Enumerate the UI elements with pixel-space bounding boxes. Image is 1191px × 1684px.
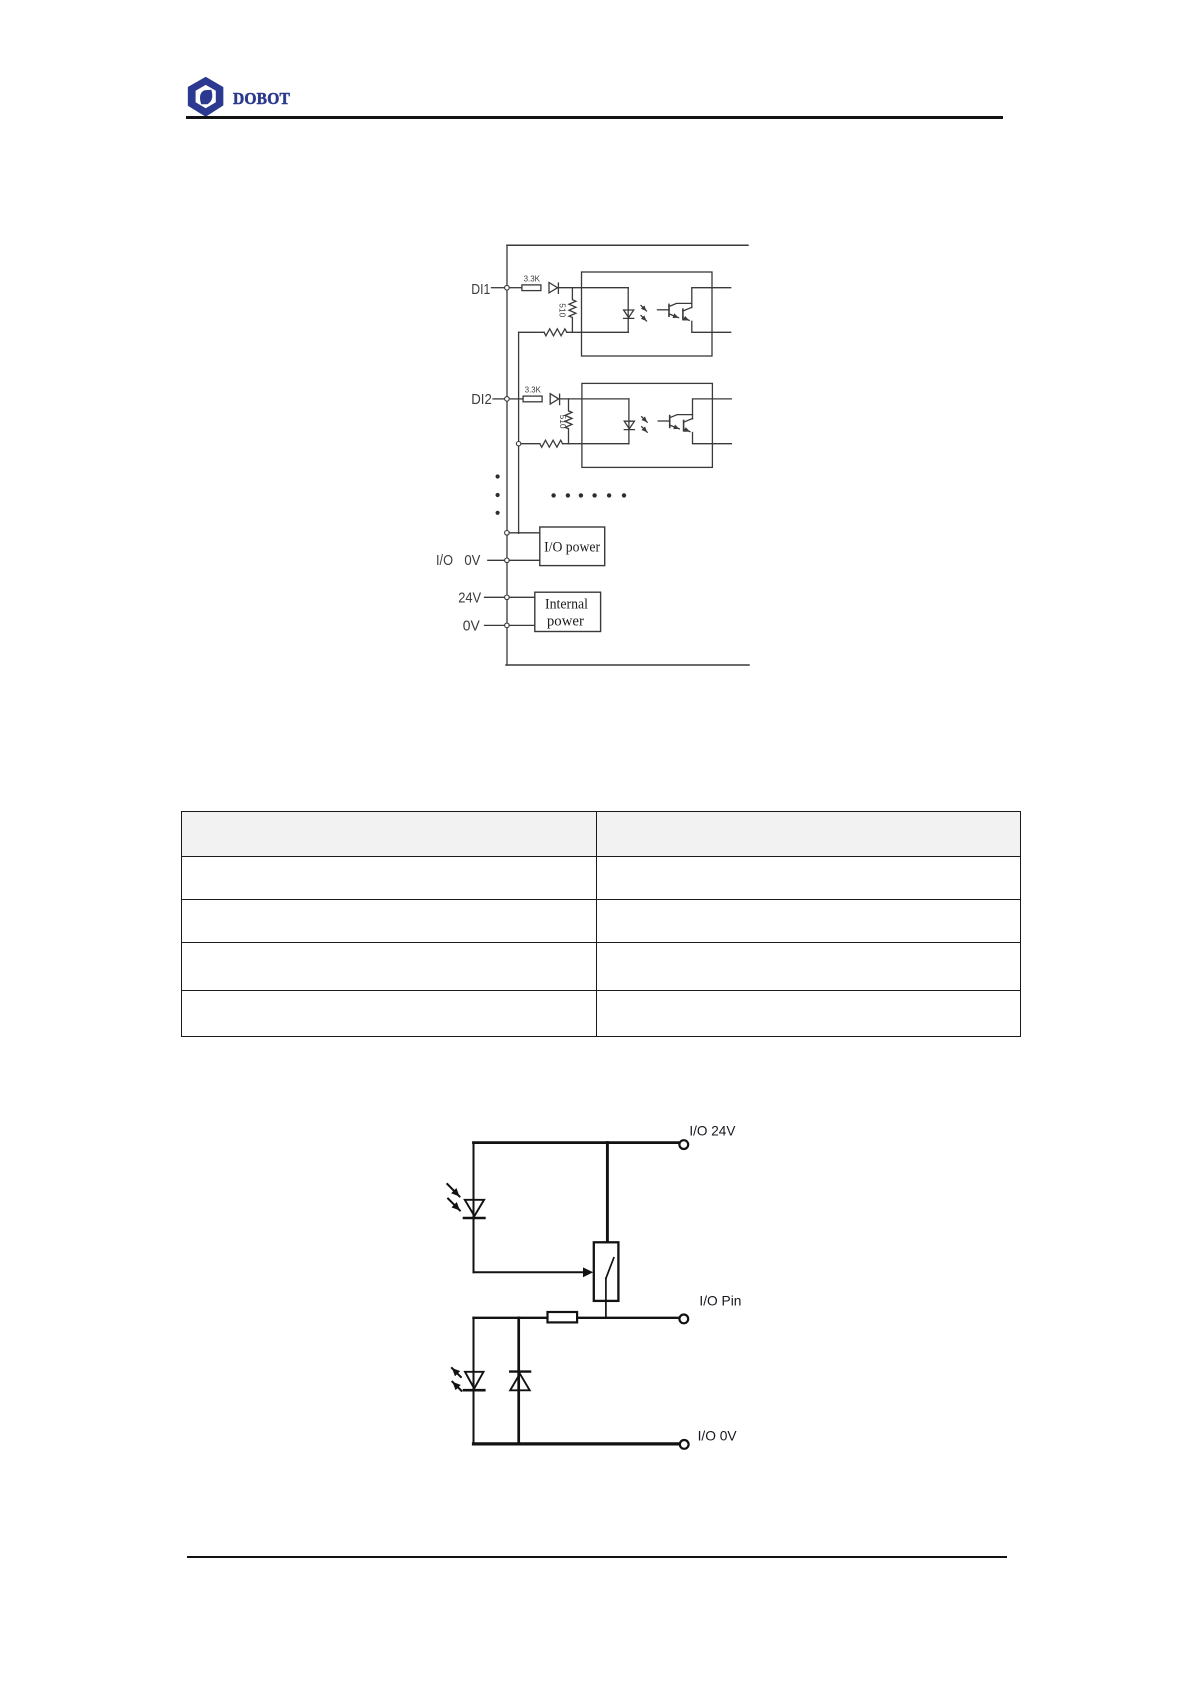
terminal I/O Pin: [679, 1315, 688, 1324]
indicator LED2: [465, 1372, 484, 1389]
svg-text:3.3K: 3.3K: [524, 274, 541, 283]
wire I/O Pin rail: [474, 1317, 679, 1319]
wire LED1 branch: [473, 1143, 475, 1273]
resistor R6: [540, 440, 563, 447]
wire DI2 lead: [493, 398, 505, 400]
wire D2 to LED: [560, 398, 629, 400]
wire pulldown bus: [518, 332, 520, 533]
wire DI1 lead: [492, 287, 505, 289]
optocoupler U1: [582, 272, 713, 356]
LED of U2: [624, 399, 634, 444]
clamp diode D3: [510, 1370, 530, 1372]
wire U2 output frame: [693, 399, 732, 444]
wire I/O 0V lead: [488, 559, 505, 561]
node DI2 terminal: [505, 397, 510, 402]
svg-text:power: power: [547, 614, 584, 630]
svg-text:I/O Pin: I/O Pin: [699, 1292, 741, 1308]
arrowhead into switch: [583, 1267, 593, 1277]
resistor R1 3.3K: [522, 285, 541, 291]
node I/O power junction: [505, 531, 510, 536]
logo leaf: [200, 90, 212, 105]
wire 0V to box: [509, 624, 535, 626]
node 24V terminal: [505, 595, 510, 600]
svg-text:510: 510: [558, 303, 567, 318]
terminal I/O 0V: [680, 1440, 689, 1449]
switch box Q: [594, 1242, 619, 1301]
wire R3 to bus corner: [519, 331, 545, 333]
svg-text:DI1: DI1: [471, 281, 490, 298]
wire I/O 24V rail: [474, 1141, 679, 1144]
svg-text:I/O 0V: I/O 0V: [698, 1428, 738, 1444]
svg-text:DOBOT: DOBOT: [233, 89, 290, 108]
resistor R5 510: [565, 399, 572, 444]
svg-text:24V: 24V: [458, 589, 481, 606]
svg-text:0V: 0V: [464, 552, 480, 569]
optocoupler U2: [582, 383, 713, 467]
Internal power box: [535, 592, 601, 631]
footer rule: [187, 1556, 1007, 1558]
terminal I/O 24V: [679, 1140, 688, 1149]
svg-text:510: 510: [558, 415, 567, 430]
I/O power box: [540, 527, 605, 566]
logo hexagon: [189, 78, 223, 116]
resistor R7: [548, 1312, 578, 1322]
wire I/O 0V rail: [474, 1442, 679, 1445]
node DI2 return junction: [516, 442, 520, 446]
header rule: [186, 116, 1003, 118]
phototransistor Q2: [658, 420, 670, 422]
wire LED2 cathode bottom: [563, 443, 629, 445]
horizontal ellipsis dots: [551, 493, 555, 497]
resistor R3: [544, 329, 567, 336]
light arrows U1: [641, 306, 647, 312]
phototransistor Q1: [658, 309, 670, 311]
resistor R2 510: [569, 288, 576, 333]
resistor R4 3.3K: [523, 396, 542, 402]
wire bottom border: [506, 664, 749, 666]
svg-text:I/O: I/O: [436, 552, 453, 569]
switch lever: [606, 1258, 614, 1279]
light arrows out of LED2: [452, 1368, 461, 1377]
wire R6 to bus: [519, 443, 540, 445]
wire DI2 to resistor: [509, 398, 523, 400]
svg-text:I/O 24V: I/O 24V: [689, 1123, 736, 1139]
vertical ellipsis dots: [496, 474, 500, 478]
wire 0V lead: [485, 624, 505, 626]
Upper schematic: digital input optocoupler circuit: [420, 230, 800, 680]
wire LED cathode bottom: [567, 331, 628, 333]
wire 24V lead: [485, 596, 505, 598]
wire clamp diode branch: [517, 1318, 520, 1444]
wire drive arrow to switch: [474, 1271, 585, 1273]
svg-text:DI2: DI2: [471, 391, 492, 408]
node DI1 terminal: [505, 285, 510, 290]
wire DI1 to resistor: [509, 287, 522, 289]
wire LED2 branch: [473, 1318, 475, 1444]
wire U1 output frame: [692, 288, 731, 333]
light arrows U2: [642, 417, 648, 423]
svg-text:0V: 0V: [463, 617, 480, 634]
wire 24V to box: [509, 596, 535, 598]
DOBOT logo: [183, 70, 313, 122]
wire I/O 0V to box: [509, 559, 540, 561]
node 0V terminal: [505, 623, 510, 628]
wire switch to pin: [605, 1278, 607, 1317]
logo inner hexagon: [196, 85, 216, 108]
wire 24V to switch: [606, 1143, 609, 1243]
wire D1 to LED: [558, 287, 628, 289]
diode D1: [549, 283, 558, 294]
svg-text:I/O power: I/O power: [544, 540, 600, 556]
Lower schematic: digital output circuit: [430, 1110, 760, 1470]
node I/O 0V terminal: [505, 558, 510, 563]
LED of U1: [624, 288, 634, 333]
I/O specification table: [181, 811, 1021, 1037]
photodiode LED1: [465, 1200, 484, 1216]
wire left bus: [506, 245, 508, 665]
svg-text:3.3K: 3.3K: [525, 386, 542, 395]
wire to I/O power box: [509, 532, 540, 534]
svg-text:Internal: Internal: [545, 596, 588, 612]
diode D2: [550, 394, 559, 405]
wire top border: [507, 244, 748, 246]
light arrows into LED1: [447, 1184, 459, 1197]
